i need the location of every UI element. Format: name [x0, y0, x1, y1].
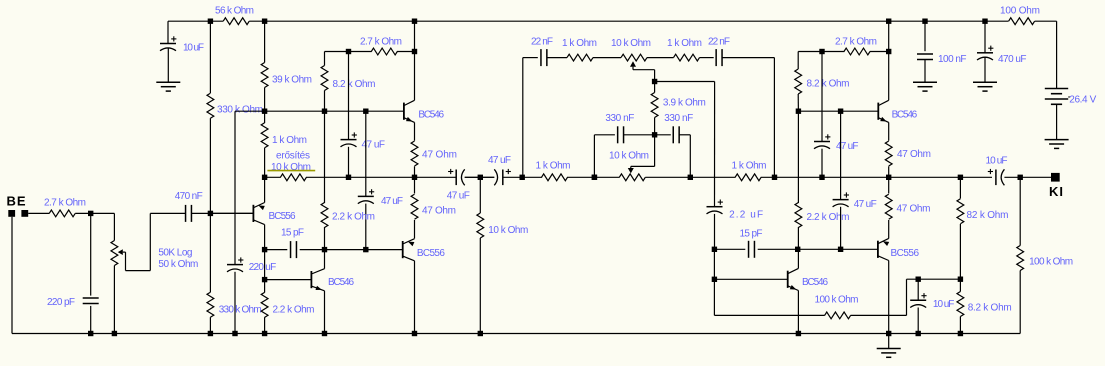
wire C4 to ground rail: [234, 272, 236, 334]
resistor R9 8.2k: [321, 66, 328, 91]
svg-text:2.7 k Ohm: 2.7 k Ohm: [44, 197, 86, 208]
wire bias node to R5: [209, 213, 211, 292]
wire battery to ground: [1056, 104, 1058, 139]
svg-text:2.7 k Ohm: 2.7 k Ohm: [835, 37, 877, 48]
transistor Q7 BC556 output: [878, 238, 889, 260]
label BC556 Q7: [891, 248, 920, 259]
label 47 uF c: [836, 141, 859, 152]
capacitor C1 220pF: [83, 298, 99, 304]
label 47 uF coupling a: [447, 190, 470, 201]
wire R9 to node: [324, 91, 326, 112]
wire Q6 collector up: [797, 249, 799, 268]
node Q7 collector ground: [886, 331, 891, 336]
wire node to 2.2k btm: [264, 280, 266, 293]
wire top rail segment A: [168, 20, 223, 22]
wire 2.7k line left: [325, 51, 372, 53]
label 100 k Ohm output: [1029, 256, 1073, 267]
ground G4 battery: [1045, 140, 1069, 149]
node 82k top mid: [958, 175, 963, 180]
wire 8.2k btm to rail: [959, 317, 961, 334]
node Q4 collector ground: [412, 331, 417, 336]
node input junction: [88, 211, 93, 216]
wire 82k to divider: [959, 224, 961, 279]
wire P3 wiper up: [654, 135, 656, 167]
svg-text:BC546: BC546: [892, 109, 918, 120]
wire node B1 to C4 corner: [235, 110, 265, 112]
wire rail to C3: [167, 21, 169, 43]
wire 47uF c top: [821, 52, 823, 142]
svg-text:330 nF: 330 nF: [664, 113, 693, 124]
wire mid rail to R8: [265, 176, 281, 178]
resistor R2 56k: [223, 18, 249, 25]
resistor R23 8.2k amp2: [795, 69, 802, 94]
wire base line amp2: [798, 110, 878, 112]
node pot ground: [112, 331, 117, 336]
node bass left mid: [592, 175, 597, 180]
node 47uF top amp2: [819, 49, 824, 54]
wire 10k bottom lead: [479, 238, 481, 334]
svg-text:KI: KI: [1049, 184, 1063, 199]
node treble wiper: [652, 79, 657, 84]
wire 8.2k to node amp2: [797, 94, 799, 111]
svg-text:BC556: BC556: [891, 248, 920, 259]
capacitor C6 47uF b: [358, 189, 374, 203]
transistor Q3 BC546: [311, 269, 324, 291]
svg-text:22 nF: 22 nF: [531, 37, 553, 48]
wire treble corner: [523, 57, 538, 59]
resistor R22 2.7k amp2: [844, 48, 870, 55]
svg-text:47 Ohm: 47 Ohm: [897, 149, 931, 160]
wire 10uF fb to rail: [917, 308, 919, 334]
wire corner down to C4: [234, 111, 236, 264]
svg-text:47 uF: 47 uF: [836, 141, 859, 152]
svg-text:47 uF: 47 uF: [362, 139, 386, 150]
label 220 uF: [249, 262, 277, 273]
potentiometer P2 wiper arrow: [630, 61, 636, 69]
label 2.7 k Ohm amp2: [835, 37, 877, 48]
wire corner to 8.2k amp2: [797, 52, 799, 70]
label 2.2 k Ohm amp2: [807, 212, 850, 223]
resistor R15 10k: [477, 213, 484, 238]
svg-text:BC546: BC546: [418, 110, 444, 121]
label BC546 Q6: [802, 277, 828, 288]
label 47 uF coupling b: [488, 155, 511, 166]
svg-text:220 pF: 220 pF: [47, 297, 75, 308]
wire 47uF a top: [348, 52, 350, 140]
svg-text:BE: BE: [7, 194, 26, 209]
svg-text:10 uF: 10 uF: [986, 156, 1008, 167]
node output junction: [1018, 175, 1023, 180]
label 10 k Ohm treble: [611, 38, 651, 49]
svg-text:1 k Ohm: 1 k Ohm: [667, 38, 702, 49]
wire battery stem: [1056, 21, 1058, 88]
node divider: [958, 277, 963, 282]
svg-text:1 k Ohm: 1 k Ohm: [272, 135, 307, 146]
wire R13 to Q4 emitter: [414, 220, 416, 239]
label 22 nF right: [708, 37, 730, 48]
wire 47uF a bottom: [348, 147, 350, 178]
wire 22nF to 1k: [547, 57, 567, 59]
resistor R5 330k lower: [207, 292, 214, 317]
svg-text:1 k Ohm: 1 k Ohm: [732, 161, 767, 172]
wire treble node to 2.2uF corner: [655, 81, 715, 83]
node rail 470uF: [982, 19, 987, 24]
svg-text:8.2 k Ohm: 8.2 k Ohm: [807, 79, 850, 90]
wire 1k to 22nF right: [700, 57, 714, 59]
capacitor C16 10uF fb: [910, 293, 926, 307]
wire bass left corner: [594, 134, 615, 136]
capacitor C4 220uF: [227, 257, 243, 271]
resistor R10 2.7k amp1: [371, 48, 397, 55]
wire BE to R1: [28, 212, 49, 214]
label 8.2 k Ohm amp1: [333, 79, 376, 90]
svg-text:10 k Ohm: 10 k Ohm: [488, 225, 528, 236]
wire fb2 node down to 100k: [713, 279, 715, 315]
wire rail drop to 2.7k: [414, 21, 416, 51]
node Q1 emitter mid rail: [262, 175, 267, 180]
label BE: [7, 194, 26, 209]
svg-text:BC546: BC546: [802, 277, 828, 288]
transistor Q2 BC546: [404, 100, 415, 122]
label KI: [1049, 184, 1063, 199]
node C2 bias junction: [208, 211, 213, 216]
node mid rail amp2: [886, 175, 891, 180]
svg-text:470 uF: 470 uF: [998, 54, 1027, 65]
label 2.2 k Ohm amp1: [332, 211, 375, 222]
node fb2 left: [712, 247, 717, 252]
svg-text:100 k Ohm: 100 k Ohm: [1029, 256, 1073, 267]
svg-text:2.2 uF: 2.2 uF: [729, 210, 763, 221]
node Q6 emitter ground: [796, 331, 801, 336]
svg-text:47 uF: 47 uF: [381, 196, 403, 207]
capacitor C11 22nF right: [716, 49, 722, 66]
svg-text:22 nF: 22 nF: [708, 37, 730, 48]
wire wiper down: [125, 252, 127, 271]
wire 330nF R to corner: [679, 134, 690, 136]
label 47 uF d: [854, 199, 877, 210]
wire R4 to bias node: [209, 118, 211, 213]
ground G3 470uF: [973, 57, 997, 91]
label 39 k Ohm: [272, 75, 312, 86]
label 330 k Ohm lower: [219, 304, 262, 315]
wire wiper up: [149, 213, 151, 270]
wire junction to C1: [90, 213, 92, 295]
label BC546 Q3: [328, 277, 354, 288]
label BC546 Q2: [418, 110, 444, 121]
wire base node to Q1: [210, 212, 253, 214]
wire 10k top lead: [479, 177, 481, 213]
potentiometer P2 10k treble: [621, 54, 647, 61]
wire output to 100k: [1019, 177, 1021, 245]
node rail R3 right: [262, 19, 267, 24]
transistor Q4 BC556 output: [403, 239, 415, 261]
wire treble right drop: [773, 58, 775, 178]
label 1 k Ohm treble L: [562, 38, 597, 49]
svg-text:50 k Ohm: 50 k Ohm: [158, 259, 198, 270]
input terminal BE pin 2: [21, 210, 28, 217]
wire divider line: [907, 278, 961, 280]
resistor R25 47 Ohm upper amp2: [885, 141, 892, 166]
resistor R21 100k fb: [825, 312, 851, 319]
resistor R14 2.2k btm: [261, 292, 268, 317]
wire Q3 collector up: [324, 250, 326, 269]
svg-text:8.2 k Ohm: 8.2 k Ohm: [968, 303, 1012, 314]
wire Q2 collector up: [414, 52, 416, 101]
label 2.2 uF: [729, 210, 763, 221]
label 3.9 k Ohm: [663, 98, 706, 109]
wire Q1 collector to Q3 base node: [264, 250, 266, 280]
wire wiper across: [126, 270, 151, 272]
wire mid rail to R13: [414, 177, 416, 193]
wire fb2 line left: [714, 248, 745, 250]
label 47 Ohm lower amp1: [422, 205, 456, 216]
wire R12 to mid rail: [414, 166, 416, 177]
node N1 collector Q1: [262, 247, 267, 252]
wire C2 to base node: [192, 212, 254, 214]
node fb2 2.2k: [795, 247, 800, 252]
wire Q5 emitter down: [888, 122, 890, 140]
label 330 nF right: [664, 113, 693, 124]
label 100 k Ohm fb: [815, 294, 859, 305]
svg-text:15 pF: 15 pF: [281, 228, 304, 239]
label 470 nF: [175, 191, 203, 202]
capacitor C18 47uF d: [833, 192, 849, 206]
label 100 Ohm: [1000, 6, 1040, 17]
potentiometer P1 wiper arrow: [118, 249, 126, 255]
node Q3 base junction: [262, 277, 267, 282]
wire rail to battery corner: [1035, 20, 1057, 22]
svg-text:erősítés: erősítés: [276, 151, 310, 162]
wire 2.2uF to fb node: [714, 214, 716, 249]
label 220 pF: [47, 297, 75, 308]
node Q6 base junction: [712, 277, 717, 282]
wire R25 to mid rail: [888, 166, 890, 177]
svg-text:2.2 k Ohm: 2.2 k Ohm: [332, 211, 375, 222]
wire Q6 emitter down: [797, 291, 799, 334]
label 15 pF amp2: [740, 229, 763, 240]
svg-text:10 uF: 10 uF: [183, 43, 204, 54]
wire bass left drop: [593, 135, 595, 178]
node treble drop mid: [520, 175, 525, 180]
node 10uF fb top: [916, 277, 921, 282]
capacitor C20 100nF: [917, 54, 933, 60]
label 47 Ohm lower amp2: [897, 204, 931, 215]
label 56 k Ohm: [215, 6, 254, 17]
svg-text:1 k Ohm: 1 k Ohm: [562, 38, 597, 49]
wire Q6 base lead: [714, 278, 787, 280]
label 1 k Ohm mid2: [732, 161, 767, 172]
label 10 uF fb: [933, 299, 955, 310]
wire rail to R6 39k: [264, 21, 266, 62]
label 2.2 k Ohm btm: [273, 304, 315, 315]
svg-text:47 uF: 47 uF: [447, 190, 470, 201]
svg-text:BC546: BC546: [328, 277, 354, 288]
node bass right mid: [688, 175, 693, 180]
svg-text:47 Ohm: 47 Ohm: [422, 205, 456, 216]
wire mid rail to bass pot: [567, 176, 620, 178]
wire pot bottom lead: [113, 266, 115, 334]
resistor R28 8.2k btm: [957, 292, 964, 317]
wire treble node to 3.9k: [654, 82, 656, 93]
wire Q3 base lead: [265, 279, 312, 281]
wire fb2 down: [713, 249, 715, 279]
node treble right mid rail: [772, 175, 777, 180]
svg-text:26.4 V: 26.4 V: [1069, 94, 1096, 105]
wire coupling to treble drop: [503, 176, 542, 178]
wire mid rail to 82k: [959, 177, 961, 198]
potentiometer P1 50k body: [111, 241, 118, 266]
capacitor C8 47uF coupling a: [448, 169, 465, 185]
label 50K Log: [158, 248, 192, 259]
svg-text:47 uF: 47 uF: [488, 155, 511, 166]
svg-text:100 nF: 100 nF: [938, 54, 967, 65]
wire R1 to volume pot: [75, 212, 114, 214]
wire top rail segment B: [249, 20, 1008, 22]
node B2: [796, 109, 801, 114]
wire rail to 100nF: [924, 21, 926, 51]
resistor R6 39k: [261, 63, 268, 88]
node 47uF top mid: [346, 175, 351, 180]
wire Q2 emitter down: [414, 122, 416, 140]
node C4 ground: [232, 331, 237, 336]
svg-text:100 k Ohm: 100 k Ohm: [815, 294, 859, 305]
wire Q5 collector up: [888, 52, 890, 101]
capacitor C2 470nF: [186, 205, 192, 222]
wire bass right drop: [689, 135, 691, 178]
wire 47uF d bottom: [840, 207, 842, 250]
node 47uF b top: [363, 109, 368, 114]
label 47 Ohm upper amp2: [897, 149, 931, 160]
label 47 Ohm upper amp1: [422, 149, 457, 160]
svg-text:BC556: BC556: [417, 248, 445, 259]
node mid rail emitter column: [412, 175, 417, 180]
capacitor C5 47uF a: [341, 132, 357, 146]
capacitor C12 330nF left: [618, 126, 624, 143]
wire Q4 collector down: [414, 261, 416, 334]
wire fb line left: [265, 249, 288, 251]
transistor Q1 BC556: [253, 203, 264, 225]
wire 2.7k to collector node: [397, 51, 415, 53]
resistor R20 1k mid2: [735, 174, 761, 181]
resistor R16 1k treble L: [567, 54, 593, 61]
label 82 k Ohm: [967, 210, 1009, 221]
resistor R19 1k mid: [542, 174, 568, 181]
wire R26 to Q7 emitter: [888, 220, 890, 239]
node R14 ground: [262, 331, 267, 336]
label 100 nF: [938, 54, 967, 65]
capacitor C7 15pF: [291, 241, 297, 258]
wire bottom ground rail: [12, 333, 1020, 335]
node R15 ground: [478, 331, 483, 336]
resistor R13 47 Ohm lower: [411, 194, 418, 219]
svg-text:50K Log: 50K Log: [158, 248, 192, 259]
label 15 pF amp1: [281, 228, 304, 239]
label BC546 Q5: [892, 109, 918, 120]
svg-text:10 uF: 10 uF: [933, 299, 955, 310]
label 8.2 k Ohm btm: [968, 303, 1012, 314]
wire base line y111: [265, 110, 404, 112]
svg-text:10 k Ohm: 10 k Ohm: [611, 38, 651, 49]
wire 330nF L to node: [623, 134, 654, 136]
svg-text:56 k Ohm: 56 k Ohm: [215, 6, 254, 17]
label 1 k Ohm treble R: [667, 38, 702, 49]
label 2.7 k Ohm input: [44, 197, 86, 208]
node fb 47uF: [363, 247, 368, 252]
wire 2.2k btm to rail: [264, 317, 266, 333]
label 50 k Ohm: [158, 259, 198, 270]
svg-text:330 k Ohm: 330 k Ohm: [217, 105, 263, 116]
label 470 uF: [998, 54, 1027, 65]
transistor Q6 BC546 lower: [788, 268, 799, 290]
node rail drop amp1: [412, 19, 417, 24]
wire between coupling caps: [465, 176, 495, 178]
wire Q7 collector down: [888, 261, 890, 334]
wire divider to 8.2k: [959, 279, 961, 291]
battery B1 26.4V: [1045, 89, 1070, 105]
resistor R27 82k: [957, 199, 964, 224]
capacitor C21 470uF: [977, 46, 993, 60]
capacitor C9 47uF coupling b: [494, 169, 511, 185]
wire 2.7k to collector amp2: [870, 51, 889, 53]
svg-text:39 k Ohm: 39 k Ohm: [272, 75, 312, 86]
wire 47uF c bottom: [821, 149, 823, 178]
wire 100k line right: [851, 314, 907, 316]
label 22 nF left: [531, 37, 553, 48]
node fb 2.2k: [322, 247, 327, 252]
svg-text:BC556: BC556: [269, 211, 296, 222]
label 10 k Ohm bass: [609, 151, 649, 162]
wire rail to 470uF: [984, 21, 986, 53]
node R28 ground: [958, 331, 963, 336]
wire C1 to ground rail: [90, 306, 92, 334]
ground G2 100nF: [913, 60, 937, 92]
wire P3 wiper across: [631, 165, 655, 167]
wire wiper to C2: [150, 212, 185, 214]
potentiometer P3 wiper arrow: [628, 166, 634, 173]
wire node B1 to R7 1k: [264, 111, 266, 123]
wire mid rail to R20: [645, 176, 735, 178]
svg-text:47 uF: 47 uF: [854, 199, 877, 210]
label 10 k Ohm mid: [488, 225, 528, 236]
node Q3 emitter ground: [322, 331, 327, 336]
resistor R1 2.7k input: [49, 210, 75, 217]
node R9 bottom: [322, 109, 327, 114]
wire R6 to node B1: [264, 88, 266, 112]
capacitor C15 15pF amp2: [749, 241, 755, 258]
wire y51 corner to R9: [324, 52, 326, 66]
label 47 uF b: [381, 196, 403, 207]
node collector load amp2: [886, 49, 891, 54]
wire node to 330nF R: [655, 134, 671, 136]
svg-text:2.2 k Ohm: 2.2 k Ohm: [807, 212, 850, 223]
label 10 uF output: [986, 156, 1008, 167]
label 330 k Ohm upper: [217, 105, 263, 116]
node 10uF fb ground: [916, 331, 921, 336]
label 330 nF left: [605, 113, 634, 124]
wire pot top lead: [113, 213, 115, 240]
wire 22nF to corner: [722, 57, 775, 59]
resistor R12 47 Ohm upper: [411, 141, 418, 166]
wire R11 top lead: [324, 111, 326, 203]
resistor R24 2.2k amp2: [795, 203, 802, 228]
wire 1k to pot: [593, 57, 621, 59]
wire 10uF fb top lead: [917, 279, 919, 300]
svg-text:3.9 k Ohm: 3.9 k Ohm: [663, 98, 706, 109]
svg-text:15 pF: 15 pF: [740, 229, 763, 240]
node R19 right: [592, 175, 597, 180]
node 47uF c mid: [819, 175, 824, 180]
wire mid to R26: [888, 177, 890, 193]
